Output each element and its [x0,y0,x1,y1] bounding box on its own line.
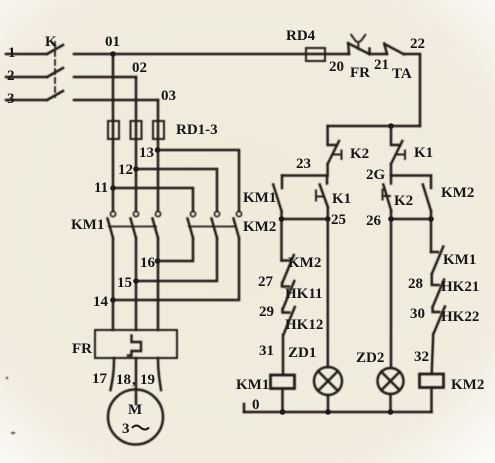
relay K1 NC contact top stub with foot [391,126,400,145]
FR NC contact fixed tick [368,49,371,55]
svg-text:FR: FR [350,65,370,81]
wire node 13 branch to KM2 pole 3 [158,150,240,211]
thermal relay FR heater symbol [128,336,141,356]
wire ZD2 to rail [389,394,392,412]
svg-text:02: 02 [132,60,147,76]
wire FR to motor terminal 17 [111,358,115,390]
wire phase 1 to node 01 and RD4 [74,53,349,56]
svg-text:01: 01 [105,34,120,50]
motor 3~ tilde symbol [132,426,149,430]
contactor KM2 main pole 2 [214,211,219,216]
wire vertical phase 1 from node 01 [112,54,115,210]
svg-text:ZD2: ZD2 [356,350,384,366]
wire HK12 to coil KM1 [282,335,285,375]
wire FR to TA, node 21 [370,53,388,56]
contact K2 aux tick [383,190,391,200]
coil KM2 [420,374,444,388]
wire right chain top [430,219,433,252]
svg-text:KM1: KM1 [71,217,104,233]
node 25 right dot [325,216,331,222]
svg-text:15: 15 [117,275,132,291]
bar node 2G [391,174,431,177]
wire coil KM2 to rail [430,388,433,413]
svg-text:17: 17 [92,371,108,387]
svg-text:HK22: HK22 [441,309,479,325]
wire KM1 pole 3 down to FR [157,238,160,330]
node 13 junction dot [155,147,161,153]
lamp ZD1 [314,367,342,395]
svg-text:KM2: KM2 [451,377,484,393]
relay K1 NC contact tick [398,151,406,160]
svg-text:KM2: KM2 [243,219,276,235]
wire FR to motor terminal 18 [135,358,138,404]
wire K2 aux down [390,211,393,219]
wire KM2 pole 3 to node 14 [113,238,239,300]
rail left end tick [243,404,246,412]
svg-text:K1: K1 [332,191,351,207]
relay K2 NC contact top stub with foot [328,126,337,145]
coil KM1 [271,375,295,389]
svg-text:TA: TA [392,66,412,82]
wire KM2 pole 2 to node 15 [136,238,217,281]
scan speck left margin [6,377,9,380]
wire phase 3 left lead [6,99,47,102]
contact HK11 NC blade [283,281,295,309]
bottom rail node 0 [244,411,432,414]
svg-text:KM1: KM1 [443,252,476,268]
wire phase 2 to corner 02 [74,76,136,79]
relay K2 NC contact blade [328,141,339,164]
svg-text:K: K [45,34,57,50]
wire ZD2 branch [390,219,393,368]
bar node 23 [282,174,328,177]
node 16 junction dot [155,258,161,264]
wire KM2 pole 1 to node 16 [158,238,194,261]
svg-text:K2: K2 [350,146,369,162]
contactor KM1 main pole 2 [133,211,138,216]
contact KM1 NC interlock blade right [432,247,444,275]
svg-text:KM1: KM1 [236,377,269,393]
wire ZD1 branch [327,219,330,367]
svg-text:12: 12 [118,162,133,178]
svg-text:3: 3 [7,91,15,107]
svg-text:23: 23 [296,156,311,172]
wire TA to corner node 22 [404,54,420,126]
svg-text:,: , [132,372,136,388]
rail dot at KM1 coil [280,409,286,415]
rail dot at ZD1 [325,409,331,415]
fuse RD1-3 element 1 [108,121,119,139]
svg-text:RD4: RD4 [286,28,316,44]
svg-text:27: 27 [258,274,274,290]
fuse RD1-3 element 3 [153,121,164,139]
wire HK22 to coil KM2 [432,334,433,374]
wire K2 contact to bar 23 [326,164,329,176]
wire node 12 branch to KM2 pole 2 [136,169,217,211]
node 12 junction dot [133,166,139,172]
contact KM1 NO aux blade [273,185,281,212]
contact KM2 NC interlock blade [282,255,294,283]
relay K1 NC contact blade [391,141,402,164]
contactor KM2 linkage bar [189,226,236,228]
FR NC contact left pivot tick [347,43,350,54]
node 01 junction dot [110,51,116,57]
svg-text:FR: FR [72,341,92,357]
wire vertical phase 3 from 03 [157,100,160,210]
svg-text:11: 11 [94,180,108,196]
node 26 left dot [388,216,394,222]
contact K2 aux stub [390,176,393,184]
contact KM2 NO aux stub [430,176,433,189]
wire K1 aux down [327,207,330,219]
contact K1 aux tick [316,191,324,201]
svg-text:14: 14 [93,294,109,310]
contact KM2 NC interlock foot [282,259,289,262]
node 14 junction dot [110,297,116,303]
lamp ZD2 [378,368,404,394]
svg-text:20: 20 [329,59,344,75]
svg-text:03: 03 [161,88,176,104]
contact HK11 NC foot [282,283,289,287]
contactor KM1 main pole 3 [155,211,160,216]
contact HK22 NC blade [433,307,445,335]
svg-text:26: 26 [366,213,382,229]
contact K2 aux blade [383,185,391,212]
wire phase 1 left lead [6,53,47,56]
wire K1 contact to bar 2G [390,164,393,176]
node 25 left dot [279,216,285,222]
svg-text:32: 32 [414,349,429,365]
wire coil KM1 to rail [281,389,284,413]
svg-text:KM2: KM2 [441,185,474,201]
wire phase 3 to corner 03 [74,99,158,102]
contact HK21 NC blade [433,280,445,308]
thermal relay FR box [95,330,177,358]
svg-text:ZD1: ZD1 [288,345,316,361]
wire KM1 pole 2 down to FR [135,238,138,330]
wire vertical phase 2 from 02 [135,77,138,210]
wire control bus horizontal [328,125,420,128]
contact HK21 NC foot [432,274,439,285]
svg-text:16: 16 [140,255,156,271]
svg-text:21: 21 [374,57,389,73]
rail dot at ZD2 [388,409,394,415]
contactor KM2 main pole 3 [236,211,241,216]
contact KM2 NO aux blade [423,185,431,212]
node 26 right dot [428,216,434,222]
svg-text:M: M [128,402,142,418]
svg-text:18: 18 [116,372,131,388]
contact K1 aux blade [320,185,328,208]
contact KM1 NC interlock foot right [431,251,438,254]
svg-text:K2: K2 [394,193,413,209]
switch TA left pivot tick [384,44,387,55]
svg-text:2G: 2G [366,167,386,183]
relay K2 NC contact tick [334,151,342,160]
wire KM2 aux down [430,211,433,219]
contact KM1 NO aux stub [281,176,284,189]
contactor KM2 main pole 1 [190,211,195,216]
svg-text:HK11: HK11 [285,286,323,302]
svg-text:K1: K1 [414,145,433,161]
wire FR to motor terminal 19 [158,358,161,390]
svg-text:31: 31 [259,343,274,359]
svg-text:0: 0 [252,397,260,413]
contact HK12 NC foot [283,309,290,313]
switch TA blade [385,44,405,54]
fuse RD1-3 element 2 [131,121,142,139]
bar node 26 [391,218,431,221]
svg-text:HK12: HK12 [285,317,323,333]
svg-text:3: 3 [122,421,130,437]
wire KM1 pole 1 down to FR [112,238,115,330]
svg-text:30: 30 [410,306,425,322]
switch K pole 1 blade [47,45,63,54]
svg-text:KM1: KM1 [243,190,276,206]
contact K1 aux stub [326,176,329,184]
svg-text:13: 13 [139,145,154,161]
wire phase 2 left lead [6,76,47,79]
svg-text:RD1-3: RD1-3 [176,122,218,138]
switch K pole 3 blade [47,91,63,100]
wire KM1 aux to node 25 bar [280,211,283,219]
wire ZD1 to rail [327,395,330,412]
wire node 11 branch to KM2 pole 1 [113,188,193,211]
contactor KM1 main pole 1 [110,211,115,216]
svg-text:19: 19 [140,372,155,388]
scan speck lower left [11,432,16,435]
svg-text:HK21: HK21 [441,279,479,295]
node 15 junction dot [133,278,139,284]
FR thermal symbol above contact [351,35,365,49]
contactor KM1 linkage bar [109,226,156,228]
bar node 25 [282,218,328,221]
contact HK22 NC foot [433,307,440,312]
svg-text:29: 29 [259,304,274,320]
svg-text:1: 1 [8,45,16,61]
motor M 3-phase circle [108,390,163,445]
svg-text:25: 25 [331,212,346,228]
switch K linkage dashed [54,42,56,97]
svg-text:22: 22 [410,36,425,52]
control bus junction dot [388,123,394,129]
fuse RD4 [306,48,325,61]
svg-text:KM2: KM2 [288,255,321,271]
switch K pole 2 blade [47,68,63,77]
svg-text:2: 2 [7,68,15,84]
contact HK12 NC blade [283,307,295,335]
FR NC contact blade (control) [348,43,369,54]
wire left chain top [280,219,283,261]
svg-text:28: 28 [408,276,423,292]
node 11 junction dot [110,185,116,191]
